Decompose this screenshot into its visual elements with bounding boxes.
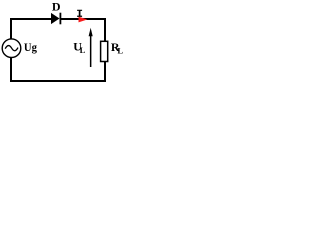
diode D cathode bar xyxy=(59,13,61,25)
wire top (anode side) xyxy=(10,18,52,20)
diode D triangle (anode) xyxy=(51,13,60,24)
resistor R_L body xyxy=(101,41,108,61)
voltage U_L arrowhead xyxy=(89,28,93,37)
wire right upper xyxy=(104,18,106,42)
wire right lower xyxy=(104,62,106,82)
svg-text:RL: RL xyxy=(111,40,123,56)
svg-text:D: D xyxy=(52,0,61,14)
svg-text:Ug: Ug xyxy=(24,40,37,54)
AC source Ug circle xyxy=(2,39,21,58)
label I xyxy=(77,10,82,17)
svg-text:UL: UL xyxy=(73,39,85,55)
AC source sine symbol xyxy=(5,46,18,51)
voltage U_L arrow line xyxy=(90,33,92,67)
wire left upper xyxy=(10,18,12,39)
wire top (cathode side to top-right corner) xyxy=(61,18,107,20)
wire left lower xyxy=(10,57,12,82)
current I red arrowhead xyxy=(79,17,88,23)
wire bottom xyxy=(10,80,106,82)
